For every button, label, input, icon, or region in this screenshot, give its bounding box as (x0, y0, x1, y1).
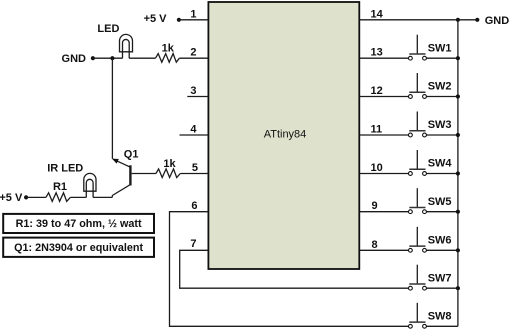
wire R3 to pin 5 (180, 173, 208, 175)
node dot SW3/bus (456, 133, 460, 137)
switch SW2 (409, 73, 452, 98)
svg-text:1k: 1k (163, 158, 176, 170)
svg-text:3: 3 (190, 85, 196, 97)
wire GND to LED (93, 57, 123, 59)
svg-text:GND: GND (62, 53, 87, 65)
transistor Q1 (112, 159, 130, 197)
svg-text:2: 2 (190, 47, 196, 59)
wire pin 11 to SW3 (359, 134, 408, 136)
wire SW7 to bus (426, 287, 458, 289)
switch SW3 (409, 112, 452, 137)
node dot GND left (91, 56, 95, 60)
svg-text:4: 4 (190, 124, 197, 136)
svg-text:SW8: SW8 (428, 310, 452, 322)
wire pin 9 to SW5 (359, 211, 408, 213)
wire pin 14 to GND (359, 19, 477, 21)
wire SW2 to bus (426, 96, 458, 98)
wire SW6 to bus (426, 249, 458, 251)
svg-text:13: 13 (371, 47, 383, 59)
svg-text:R1: R1 (53, 181, 67, 193)
wire SW1 to bus (426, 57, 458, 59)
node dot SW5/bus (456, 210, 460, 214)
svg-text:ATtiny84: ATtiny84 (264, 129, 307, 141)
svg-text:11: 11 (371, 124, 383, 136)
svg-text:5: 5 (192, 162, 198, 174)
svg-text:14: 14 (371, 8, 384, 20)
switch SW4 (409, 150, 453, 175)
svg-text:SW2: SW2 (428, 81, 452, 93)
resistor R2 1k (pin 2) (156, 54, 180, 63)
junction node A (GND/LED/Q1 emitter) (110, 56, 114, 60)
LED D1 symbol (120, 34, 133, 58)
svg-text:8: 8 (372, 239, 378, 251)
svg-text:Q1: 2N3904 or equivalent: Q1: 2N3904 or equivalent (14, 242, 143, 254)
svg-text:9: 9 (372, 200, 378, 212)
svg-text:+5 V: +5 V (0, 192, 23, 204)
node dot +5V IR (24, 195, 28, 199)
svg-text:GND: GND (485, 15, 509, 27)
svg-text:6: 6 (191, 200, 197, 212)
wire R1 to IR LED (70, 196, 86, 198)
note box Q1 (3, 238, 154, 257)
wire pin 13 to SW1 (359, 57, 408, 59)
wire node A down to Q1 emitter (111, 58, 113, 159)
svg-text:10: 10 (371, 162, 383, 174)
svg-text:Q1: Q1 (124, 148, 139, 160)
wire pin 3 (187, 96, 208, 98)
svg-text:LED: LED (97, 23, 119, 35)
wire pin 8 to SW6 (359, 249, 408, 251)
wire pin 7 to SW7 row (180, 250, 409, 288)
svg-text:R1: 39 to 47 ohm, ½ watt: R1: 39 to 47 ohm, ½ watt (16, 218, 142, 230)
resistor R1 (46, 193, 70, 202)
svg-text:7: 7 (190, 238, 196, 250)
wire pin 6 to SW8 row (170, 212, 409, 327)
wire IR LED to Q1 collector (93, 196, 112, 198)
node dot SW1/bus (456, 56, 460, 60)
switch SW7 (409, 265, 452, 290)
note box R1 (3, 214, 154, 233)
wire SW5 to bus (426, 211, 458, 213)
svg-text:+5 V: +5 V (144, 13, 168, 25)
wire SW4 to bus (426, 173, 458, 175)
switch SW8 (409, 303, 452, 328)
IC U1 ATtiny84 body (208, 2, 359, 269)
svg-text:SW4: SW4 (428, 158, 453, 170)
svg-text:SW6: SW6 (428, 234, 452, 246)
svg-text:IR LED: IR LED (47, 163, 83, 175)
wire SW3 to bus (426, 134, 458, 136)
node dot SW7/bus (456, 286, 460, 290)
wire pin 4 (180, 134, 209, 136)
wire LED to R2 (129, 57, 155, 59)
switch SW5 (409, 188, 452, 213)
svg-text:SW3: SW3 (428, 119, 452, 131)
wire R2 to pin 2 (179, 57, 208, 59)
transistor Q1 emitter arrow (112, 159, 119, 164)
node dot bus top (456, 18, 460, 22)
wire pin1 (179, 19, 209, 21)
node dot SW4/bus (456, 171, 460, 175)
resistor R3 1k (pin 5) (156, 169, 180, 178)
ground bus vertical (457, 20, 459, 327)
node dot SW2/bus (456, 94, 460, 98)
node dot GND right (475, 18, 479, 22)
svg-text:SW1: SW1 (428, 42, 452, 54)
node dot SW6/bus (456, 248, 460, 252)
IR LED D2 symbol (84, 173, 96, 197)
switch SW6 (409, 227, 452, 252)
switch SW1 (409, 35, 452, 60)
svg-text:1k: 1k (162, 42, 175, 54)
wire pin 10 to SW4 (359, 173, 408, 175)
wire SW8 to bus (426, 325, 458, 327)
svg-text:SW7: SW7 (428, 272, 452, 284)
wire Q1 base to R3 (132, 173, 156, 175)
wire +5V to R1 (26, 196, 46, 198)
svg-text:1: 1 (190, 8, 196, 20)
node dot +5V pin1 (177, 18, 181, 22)
svg-text:12: 12 (371, 85, 383, 97)
wire pin 12 to SW2 (359, 96, 408, 98)
svg-text:SW5: SW5 (428, 196, 452, 208)
